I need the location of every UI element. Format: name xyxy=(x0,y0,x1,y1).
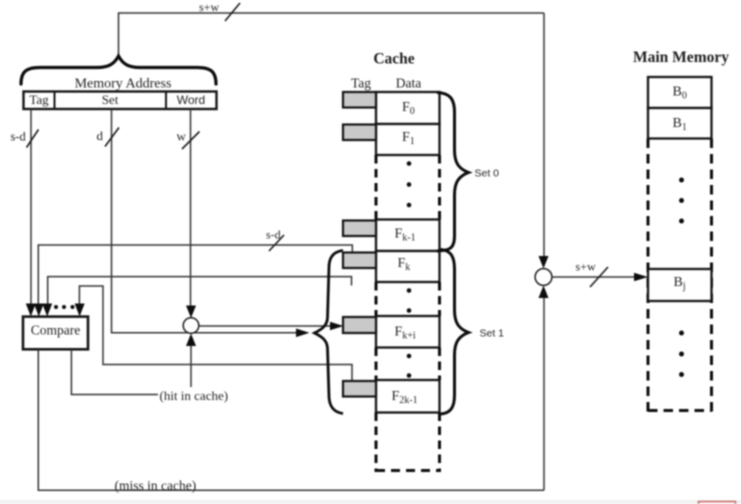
slash: top s+w xyxy=(225,3,240,21)
tag box F0 xyxy=(343,92,376,108)
svg-text:Tag: Tag xyxy=(29,92,49,107)
wire: J2 to Bj xyxy=(552,276,635,278)
dashed gap verticals xyxy=(375,282,378,316)
junction J1 circle xyxy=(183,318,199,334)
arrow: right bus into junction J2 top xyxy=(539,256,549,269)
box B0 xyxy=(648,77,712,108)
row Fk xyxy=(376,251,440,282)
slash: right s+w xyxy=(590,267,608,287)
box: memory address register xyxy=(24,92,217,110)
svg-text:Set: Set xyxy=(102,92,119,107)
slash: s-d middle xyxy=(269,235,284,251)
tag box Fk+i xyxy=(343,317,376,333)
divider set/word xyxy=(165,92,167,110)
dashed gap set0 verticals xyxy=(375,155,378,220)
svg-text:s-d: s-d xyxy=(266,228,281,242)
wire: J1 to cache line select xyxy=(199,325,331,327)
svg-text:Word: Word xyxy=(177,93,205,107)
svg-text:Tag: Tag xyxy=(351,76,371,91)
dots gap xyxy=(407,288,412,293)
svg-text:(hit in cache): (hit in cache) xyxy=(160,388,229,403)
svg-text:Memory Address: Memory Address xyxy=(75,77,172,92)
svg-text:Set 0: Set 0 xyxy=(475,168,500,180)
row F2k-1 xyxy=(376,380,440,413)
wire: second tag compare line with stub xyxy=(48,277,352,304)
brace: Set 1 (right) xyxy=(440,250,469,415)
main memory dashed body xyxy=(647,139,650,413)
dots set0 gap xyxy=(407,161,412,166)
svg-text:Compare: Compare xyxy=(31,323,81,338)
svg-text:d: d xyxy=(97,128,104,143)
wire: right vertical bus upper segment xyxy=(543,13,545,256)
arrow: hit line into junction J1 bottom xyxy=(186,334,196,347)
wire: hit in cache from compare xyxy=(71,349,158,394)
svg-text:s-d: s-d xyxy=(11,130,27,144)
svg-text:Data: Data xyxy=(396,76,421,91)
dots: compare ellipsis xyxy=(54,305,58,309)
svg-text:Set 1: Set 1 xyxy=(480,328,505,340)
wire: set field down xyxy=(112,109,298,333)
brace: Set 0 (right) xyxy=(437,93,469,252)
arrow: word line into junction J1 top xyxy=(186,306,196,319)
box: Compare xyxy=(23,317,88,350)
svg-text:(miss in cache): (miss in cache) xyxy=(115,478,197,493)
svg-text:Main Memory: Main Memory xyxy=(633,49,729,66)
arrow: compare input 1 xyxy=(26,304,36,317)
svg-text:s+w: s+w xyxy=(199,0,219,14)
junction J2 circle xyxy=(535,269,552,286)
arrow: compare input 4 xyxy=(75,304,85,317)
slash: d xyxy=(105,128,119,147)
svg-text:w: w xyxy=(177,129,187,144)
arrow: into Fk+i tag box xyxy=(330,322,344,331)
svg-text:Cache: Cache xyxy=(373,51,414,68)
dots gap xyxy=(407,354,412,359)
wire: tag field down to compare xyxy=(30,109,32,304)
arrow: compare input 2 xyxy=(34,304,44,317)
slash: s-d left xyxy=(27,130,39,148)
box Bj xyxy=(648,269,712,301)
arrow: miss line into junction J2 bottom xyxy=(539,286,549,299)
arrow: set line to set-1 brace cusp xyxy=(296,329,310,338)
wire: miss in cache from compare xyxy=(38,349,544,490)
divider tag/set xyxy=(54,92,56,110)
slash: w xyxy=(182,132,200,150)
row F1 xyxy=(376,124,440,155)
wire: hit vertical up to junction J1 xyxy=(190,346,192,387)
box B1 xyxy=(648,108,712,139)
dashed tail below cache xyxy=(375,413,378,473)
wire: Fk tag to compare (s-d line) xyxy=(38,245,352,304)
row Fk-1 xyxy=(376,220,440,252)
tag box Fk-1 xyxy=(343,221,376,237)
arrow: into Bj xyxy=(634,273,648,282)
dashed gap verticals xyxy=(375,348,378,381)
tag box F1 xyxy=(343,125,376,141)
dots main memory upper xyxy=(679,178,684,183)
tag box F2k-1 xyxy=(343,381,376,397)
tag box Fk xyxy=(343,253,376,269)
wire: word field down to junction xyxy=(190,109,192,306)
bottom gray strip xyxy=(0,500,741,504)
wire: F2k-1 tag to compare xyxy=(79,286,352,381)
row Fk+i xyxy=(376,316,440,348)
svg-text:s+w: s+w xyxy=(576,260,596,274)
red box artifact bottom right xyxy=(699,502,736,504)
wire: right vertical bus lower segment xyxy=(543,297,545,490)
wire: s+w address bus top xyxy=(119,13,545,57)
brace: memory address (cusp up) xyxy=(21,56,216,84)
brace: set 1 left (cusp toward arrow) xyxy=(315,251,344,414)
row F0 xyxy=(376,92,440,124)
arrow: compare input 3 xyxy=(42,304,52,317)
dots main memory lower xyxy=(679,331,684,336)
